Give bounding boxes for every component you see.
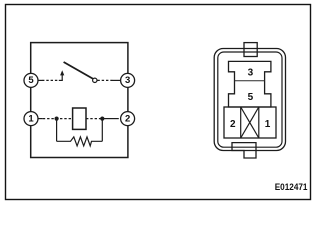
wire: solid stub into pin 3 — [113, 79, 121, 81]
wire: elbow segment — [59, 79, 63, 81]
pin 5 terminal circle — [24, 73, 38, 87]
pin 1 terminal circle — [24, 112, 38, 126]
junction dot right — [100, 117, 104, 121]
resistor R — [57, 137, 103, 146]
switch contact circle — [93, 78, 97, 82]
wire: pin 5 to switch riser (dashed) — [42, 79, 59, 81]
switch blade — [64, 62, 94, 79]
arrowhead on riser — [60, 70, 64, 75]
wire: pin 5 solid stub — [38, 79, 42, 81]
svg-text:3: 3 — [125, 75, 130, 86]
coil L1 — [73, 108, 86, 129]
divider between cavity 3 and 5 — [235, 80, 265, 82]
pin row block (2 / X / 1) — [224, 107, 276, 138]
svg-text:2: 2 — [230, 119, 236, 130]
svg-text:5: 5 — [248, 92, 254, 103]
svg-text:3: 3 — [248, 68, 254, 79]
wire: pin 1 solid stub — [38, 118, 43, 120]
X diagonal 1 — [241, 107, 259, 138]
pin 2 terminal circle — [121, 112, 135, 126]
junction dot left — [55, 117, 59, 121]
connector inner body — [218, 52, 282, 147]
connector outer body — [214, 49, 285, 151]
wire: pin 1 to coil (dashed) — [43, 118, 73, 120]
wire: switch riser — [61, 74, 63, 81]
svg-text:1: 1 — [28, 113, 34, 124]
row divider left — [240, 107, 242, 138]
svg-text:1: 1 — [265, 119, 271, 130]
X diagonal 2 — [241, 107, 259, 138]
wire: right drop to resistor — [101, 119, 103, 142]
relay internal circuit box — [31, 43, 128, 158]
pin 3 terminal circle — [121, 73, 135, 87]
border frame — [6, 5, 311, 200]
row divider right — [258, 107, 260, 138]
svg-text:2: 2 — [125, 113, 130, 124]
top mounting tab — [244, 43, 257, 57]
svg-text:E012471: E012471 — [275, 182, 308, 193]
pin cavity block (3/5) — [229, 61, 271, 107]
svg-text:5: 5 — [28, 75, 34, 86]
wire: solid stub into pin 2 — [106, 118, 119, 120]
wire: contact to pin 3 (dashed) — [97, 79, 112, 81]
wire: left drop to resistor — [56, 119, 58, 142]
wire: coil to pin 2 (dashed) — [86, 118, 106, 120]
bottom latch bar and tab — [232, 143, 256, 158]
